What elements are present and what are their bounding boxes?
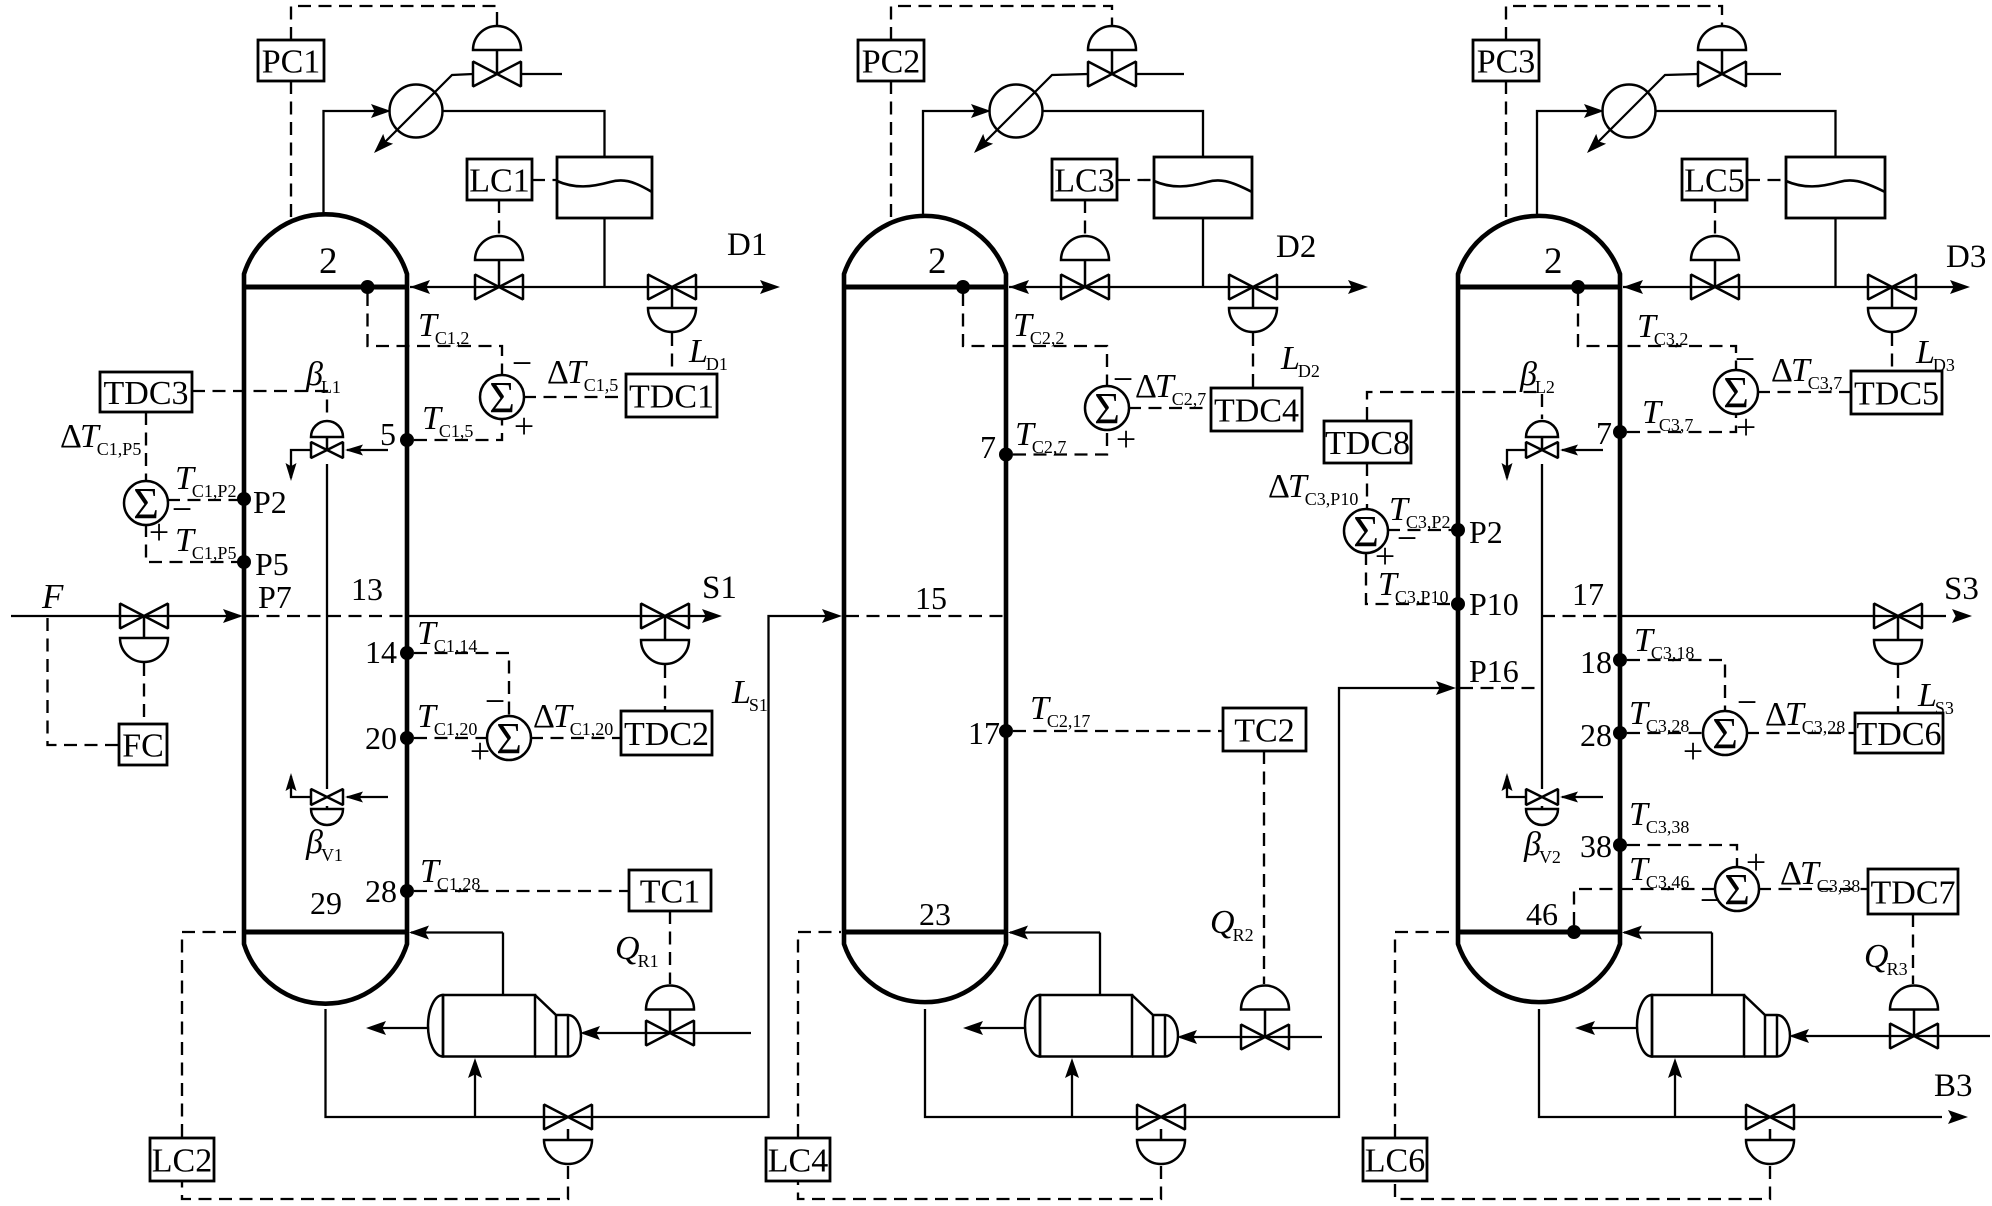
signal TDC8 to summer (dashed) xyxy=(1366,463,1368,510)
controller TDC7 xyxy=(1868,869,1958,914)
label L_D3 xyxy=(1915,334,1955,375)
signal TDC3 to summer (dashed) xyxy=(145,412,147,482)
reflux arrow into column C3 xyxy=(1623,280,1643,294)
svg-text:29: 29 xyxy=(310,885,342,921)
arrow out of beta_V2 (up) xyxy=(1502,773,1513,791)
sensor node tray 38 column C3 xyxy=(1613,838,1627,852)
controller TDC4 xyxy=(1211,388,1302,431)
label B3 xyxy=(1934,1068,1973,1104)
svg-text:B3: B3 xyxy=(1934,1068,1973,1104)
label S1 xyxy=(702,570,737,606)
arrow out of beta_L1 (down) xyxy=(286,463,297,481)
signal TDC3 to internal liquid valve (dashed) xyxy=(192,391,327,418)
label T_C2,17 xyxy=(1030,690,1090,731)
signal T_C1,5 to summer (dashed) xyxy=(414,418,502,440)
vent valve (column C1) xyxy=(473,62,521,87)
summer for TDC6 xyxy=(1703,709,1747,758)
sidestream valve S1 xyxy=(641,604,689,629)
signal PC1 to column top (dashed) xyxy=(290,81,292,223)
signal PC1 to vent valve (dashed) xyxy=(291,6,497,40)
condensate line to reflux drum (column C3) xyxy=(1656,111,1836,157)
label T_C3,2 xyxy=(1637,308,1688,349)
reboiler (column C3) xyxy=(1637,995,1790,1057)
label tray 17 column C3 xyxy=(1572,576,1604,612)
reboiler feed branch (column C2) xyxy=(1071,1062,1073,1117)
sidestream line S3 xyxy=(1620,615,1946,617)
summer plus sign (TDC3) xyxy=(149,512,169,552)
summer for TDC1 (column C1) xyxy=(480,373,524,422)
label tray 46 xyxy=(1526,896,1558,932)
distillate valve D3 xyxy=(1868,275,1916,300)
svg-text:Σ: Σ xyxy=(1712,709,1738,758)
svg-text:+: + xyxy=(1736,407,1756,447)
sensor node P10 column C3 xyxy=(1451,597,1465,611)
svg-text:+: + xyxy=(514,406,534,446)
summer for TDC7 xyxy=(1715,865,1759,914)
arrow into reboiler bottom (column C1) xyxy=(468,1058,482,1078)
controller TC1 xyxy=(629,870,711,911)
label beta_L1 xyxy=(305,356,341,397)
arrow B1 into column C2 xyxy=(822,609,842,623)
label tray 7 column C3 xyxy=(1596,415,1612,451)
svg-text:D1: D1 xyxy=(727,227,767,263)
feed tray 13 dashed line (column C1) xyxy=(246,615,405,617)
arrow B2 into column C3 xyxy=(1436,681,1456,695)
summer plus sign (TDC2) xyxy=(470,731,490,771)
vapor arrow into condenser (column C3) xyxy=(1584,104,1604,118)
label P5 column C1 xyxy=(255,546,289,582)
label T_C3,46 xyxy=(1629,851,1689,892)
internal vapor split valve beta_V2 xyxy=(1526,789,1558,825)
svg-text:P2: P2 xyxy=(1469,514,1503,550)
summer minus sign (TDC6) xyxy=(1737,682,1757,722)
controller FC xyxy=(119,724,167,765)
sensor node tray 17 column C2 xyxy=(999,724,1013,738)
steam valve actuator Q_R3 xyxy=(1890,986,1938,1037)
svg-text:46: 46 xyxy=(1526,896,1558,932)
svg-text:TC2: TC2 xyxy=(1234,712,1294,749)
svg-text:23: 23 xyxy=(919,896,951,932)
svg-text:FC: FC xyxy=(122,727,164,764)
label T_C2,2 xyxy=(1013,307,1064,348)
label beta_V1 xyxy=(305,824,343,865)
reflux arrow into column C2 xyxy=(1009,280,1029,294)
condensate line to reflux drum (column C2) xyxy=(1043,111,1204,157)
svg-text:38: 38 xyxy=(1580,828,1612,864)
steam line Q_R2 xyxy=(1180,1036,1322,1038)
signal T_C2,17 to TC2 (dashed) xyxy=(1013,730,1222,732)
svg-text:7: 7 xyxy=(980,429,996,465)
label tray 20 xyxy=(365,720,397,756)
vent valve actuator (column C3) xyxy=(1698,26,1746,74)
sidestream valve actuator S1 xyxy=(641,616,689,664)
signal L_S1 to TDC2 (dashed) xyxy=(664,665,666,710)
reflux valve (column C1) xyxy=(475,275,523,300)
label P7 xyxy=(258,579,292,615)
label T_C1,2 xyxy=(418,307,469,348)
controller LC5 xyxy=(1682,159,1747,200)
label D1 xyxy=(727,227,767,263)
label tray 7 column C2 xyxy=(980,429,996,465)
steam line Q_R1 xyxy=(583,1032,751,1034)
internal draw line beta_L2 to beta_V2 xyxy=(1541,464,1543,789)
svg-text:P10: P10 xyxy=(1469,586,1519,622)
svg-text:S1: S1 xyxy=(702,570,737,606)
signal LC5 to drum (dashed) xyxy=(1747,179,1786,181)
reboiler liquid outlet arrow (column C3) xyxy=(1575,1021,1595,1035)
controller TDC3 xyxy=(100,372,192,412)
label beta_L2 xyxy=(1519,356,1555,397)
svg-text:5: 5 xyxy=(380,416,396,452)
signal TC2 to reboiler steam valve (dashed) xyxy=(1263,751,1265,984)
feed tray P16 dashed line (column C3) xyxy=(1460,687,1542,689)
svg-text:TDC6: TDC6 xyxy=(1857,716,1942,753)
vapor line column C3 to condenser xyxy=(1537,111,1600,216)
reflux valve (column C2) xyxy=(1061,275,1109,300)
column C3 bottom tray line xyxy=(1458,930,1620,935)
summer minus sign (TDC2) xyxy=(485,681,505,721)
signal LC3 to reflux valve (dashed) xyxy=(1084,200,1086,235)
vent valve (column C3) xyxy=(1698,62,1746,87)
reflux line into column C1 xyxy=(410,286,605,288)
label tray 14 xyxy=(365,634,397,670)
svg-text:−: − xyxy=(512,343,532,383)
distillation column C1 shell xyxy=(244,214,407,1003)
distillation column C3 shell xyxy=(1458,216,1620,1002)
svg-text:LC1: LC1 xyxy=(469,162,529,199)
signal deltaT_C1,20 to TDC2 (dashed) xyxy=(530,737,620,739)
signal deltaT to TDC1 (dashed) xyxy=(523,396,625,398)
summer minus sign (TDC8) xyxy=(1397,518,1417,558)
label deltaT_C3,P10 xyxy=(1268,468,1358,509)
feed valve F xyxy=(120,604,168,629)
label T_C1,P5 xyxy=(175,522,236,563)
signal deltaT to TDC5 (dashed) xyxy=(1757,391,1850,393)
bottoms valve B1 xyxy=(544,1105,592,1130)
arrow out of beta_L2 (down) xyxy=(1502,463,1513,481)
svg-text:D2: D2 xyxy=(1276,229,1316,265)
bottoms valve actuator B3 xyxy=(1746,1129,1794,1164)
summer plus sign (TDC4) xyxy=(1116,419,1136,459)
label T_C3,7 xyxy=(1642,394,1693,435)
column C2 bottom tray line xyxy=(844,930,1006,935)
label deltaT_C3,7 xyxy=(1771,352,1842,393)
reflux line into column C2 xyxy=(1009,286,1203,288)
label tray 28 xyxy=(365,873,397,909)
signal B3 valve to LC6 (dashed) xyxy=(1395,1166,1770,1199)
svg-text:PC1: PC1 xyxy=(262,43,321,80)
distillate valve D1 xyxy=(648,275,696,300)
label tray 23 xyxy=(919,896,951,932)
arrow into reboiler bottom (column C2) xyxy=(1065,1058,1079,1078)
signal L_D2 to TDC (dashed) xyxy=(1252,333,1254,387)
svg-text:TDC2: TDC2 xyxy=(624,716,709,753)
controller TDC1 xyxy=(626,374,717,417)
column C1 bottom tray line xyxy=(244,930,407,935)
label deltaT_C1,P5 xyxy=(60,418,141,459)
distillate valve D2 xyxy=(1229,275,1277,300)
svg-text:−: − xyxy=(1735,339,1755,379)
label tray 15 xyxy=(915,580,947,616)
summer minus sign (TDC5) xyxy=(1735,339,1755,379)
signal B1 valve to LC2 (dashed) xyxy=(182,1166,568,1199)
signal PC3 to column top (dashed) xyxy=(1505,81,1507,223)
feed arrow into column C1 xyxy=(223,609,243,623)
sensor node tray 28 column C1 xyxy=(400,884,414,898)
signal T_C3,18 to summer (dashed) xyxy=(1627,660,1725,712)
svg-text:+: + xyxy=(1116,419,1136,459)
boilup vapor return into column xyxy=(1624,931,1712,933)
svg-text:TDC5: TDC5 xyxy=(1854,375,1939,412)
boilup vapor arrow into column xyxy=(1008,926,1028,940)
sidestream valve actuator S3 xyxy=(1874,616,1922,664)
sensor node tray 7 column C3 xyxy=(1613,425,1627,439)
arrow into beta_L2 xyxy=(1560,445,1578,456)
svg-text:2: 2 xyxy=(928,241,947,282)
svg-text:TDC4: TDC4 xyxy=(1214,392,1299,429)
drum outlet drop (column C2) xyxy=(1202,218,1204,287)
distillate line D2 xyxy=(1203,286,1364,288)
sidestream line S1 xyxy=(407,615,716,617)
signal LC1 to drum (dashed) xyxy=(532,179,557,181)
signal TC1 to reboiler steam valve (dashed) xyxy=(669,911,671,984)
signal T_C2,7 to summer (dashed) xyxy=(1013,429,1107,455)
internal vapor split valve beta_V1 xyxy=(311,789,343,825)
summer plus sign (TDC7) xyxy=(1746,842,1766,882)
sensor node T_C2,2 xyxy=(956,280,970,294)
reflux drum (column C3) xyxy=(1786,157,1885,218)
column C2 stage label 2 xyxy=(928,241,947,282)
column C3 top tray line xyxy=(1458,285,1620,290)
signal T_C1,14 to summer (dashed) xyxy=(414,653,509,717)
vent valve actuator (column C2) xyxy=(1088,26,1136,74)
signal LC4 to column C2 base (dashed) xyxy=(798,932,841,1137)
label T_C3,28 xyxy=(1629,695,1689,736)
label P10 column C3 xyxy=(1469,586,1519,622)
summer plus sign (TDC6) xyxy=(1683,731,1703,771)
vapor outlet of beta_V2 xyxy=(1507,776,1526,797)
signal T_C1,2 to summer (dashed) xyxy=(368,293,503,376)
arrow into reboiler bottom (column C3) xyxy=(1668,1058,1682,1078)
label T_C1,28 xyxy=(420,853,480,894)
reboiler liquid outlet line (column C3) xyxy=(1581,1027,1637,1029)
column C2 top tray line xyxy=(844,285,1006,290)
label T_C3,P2 xyxy=(1389,491,1450,532)
column C3 stage label 2 xyxy=(1544,241,1563,282)
summer minus sign (TDC4) xyxy=(1113,359,1133,399)
sensor node T_C3,2 xyxy=(1571,280,1585,294)
label tray 38 xyxy=(1580,828,1612,864)
steam valve Q_R2 xyxy=(1241,1025,1289,1050)
signal T_C3,7 to summer (dashed) xyxy=(1627,413,1736,432)
steam arrow into reboiler (column C1) xyxy=(580,1026,600,1040)
signal TDC8 to internal liquid valve (dashed) xyxy=(1367,392,1542,420)
controller TDC8 xyxy=(1324,421,1411,463)
distillate valve actuator D3 xyxy=(1868,287,1916,332)
label tray 29 xyxy=(310,885,342,921)
controller LC2 xyxy=(150,1138,214,1181)
label T_C1,5 xyxy=(422,400,473,441)
svg-text:D3: D3 xyxy=(1946,239,1986,275)
controller PC2 xyxy=(858,40,924,81)
signal TDC7 to reboiler steam valve (dashed) xyxy=(1912,914,1914,984)
sensor node P2 column C3 xyxy=(1451,523,1465,537)
svg-text:Σ: Σ xyxy=(496,714,522,763)
svg-text:17: 17 xyxy=(1572,576,1604,612)
label S3 xyxy=(1944,571,1979,607)
signal feed valve to FC (dashed) xyxy=(143,663,145,723)
label deltaT_C2,7 xyxy=(1135,368,1206,409)
reboiler liquid outlet arrow (column C1) xyxy=(366,1021,386,1035)
svg-text:PC3: PC3 xyxy=(1477,43,1536,80)
svg-text:PC2: PC2 xyxy=(862,43,921,80)
svg-text:18: 18 xyxy=(1580,644,1612,680)
signal deltaT to TDC4 (dashed) xyxy=(1128,407,1210,409)
label deltaT_C1,5 xyxy=(547,354,618,395)
label T_C3,18 xyxy=(1634,622,1694,663)
column C1 stage label 2 xyxy=(319,241,338,282)
sensor node tray 28 column C3 xyxy=(1613,726,1627,740)
signal LC5 to reflux valve (dashed) xyxy=(1714,200,1716,235)
label Q_R2 xyxy=(1210,904,1254,945)
controller PC3 xyxy=(1473,40,1539,81)
svg-text:28: 28 xyxy=(365,873,397,909)
summer for TDC2 xyxy=(487,714,531,763)
controller TDC6 xyxy=(1855,713,1943,753)
reboiler feed branch (column C1) xyxy=(474,1062,476,1117)
svg-text:−: − xyxy=(485,681,505,721)
sensor node tray 20 column C1 xyxy=(400,731,414,745)
svg-text:P7: P7 xyxy=(258,579,292,615)
controller PC1 xyxy=(258,40,324,81)
reboiler (column C2) xyxy=(1025,995,1178,1057)
steam arrow into reboiler (column C3) xyxy=(1789,1029,1809,1043)
arrow B3 xyxy=(1948,1110,1968,1124)
sensor node tray 46 column C3 xyxy=(1567,925,1581,939)
boilup vapor line (column C2) xyxy=(1099,933,1101,996)
bottoms line B3 from column C3 xyxy=(1539,1009,1942,1117)
vapor line column C1 to condenser xyxy=(324,111,388,216)
vapor inlet line to beta_V2 xyxy=(1562,796,1603,798)
reboiler feed branch (column C3) xyxy=(1674,1062,1676,1117)
feed valve actuator xyxy=(120,616,168,662)
signal L_S3 to TDC6 (dashed) xyxy=(1897,665,1899,712)
label T_C3,38 xyxy=(1629,796,1689,837)
bottoms line B2 from column C2 xyxy=(925,688,1450,1117)
signal T_C1,P5 to summer (dashed) xyxy=(146,524,240,562)
arrow into beta_V2 xyxy=(1560,792,1578,803)
summer plus sign (TDC5) xyxy=(1736,407,1756,447)
label T_C3,P10 xyxy=(1378,566,1448,607)
svg-text:TC1: TC1 xyxy=(640,873,700,910)
label deltaT_C3,38 xyxy=(1780,855,1860,896)
label Q_R3 xyxy=(1864,938,1908,979)
signal B2 valve to LC4 (dashed) xyxy=(798,1166,1161,1199)
svg-text:7: 7 xyxy=(1596,415,1612,451)
vapor line column C2 to condenser xyxy=(923,111,987,216)
steam arrow into reboiler (column C2) xyxy=(1177,1030,1197,1044)
label P2 column C1 xyxy=(253,484,287,520)
controller TC2 xyxy=(1223,708,1306,751)
distillate valve actuator D1 xyxy=(648,287,696,332)
svg-text:+: + xyxy=(1683,731,1703,771)
signal T_C3,28 to summer (dashed) xyxy=(1627,732,1704,734)
label L_D1 xyxy=(688,333,728,374)
svg-text:13: 13 xyxy=(351,571,383,607)
signal L_D1 to TDC (dashed) xyxy=(671,333,673,373)
signal PC3 to vent valve (dashed) xyxy=(1506,6,1722,40)
sensor node tray 14 column C1 xyxy=(400,646,414,660)
distillate arrow D2 xyxy=(1348,280,1368,294)
signal T_C2,2 to summer (dashed) xyxy=(963,293,1107,387)
signal T_C3,46 to summer (dashed) xyxy=(1574,889,1716,925)
label D2 xyxy=(1276,229,1316,265)
signal PC2 to vent valve (dashed) xyxy=(891,6,1112,40)
boilup vapor arrow into column xyxy=(1622,926,1642,940)
reflux line into column C3 xyxy=(1623,286,1836,288)
bottoms valve actuator B1 xyxy=(544,1129,592,1164)
signal LC2 to column C1 base (dashed) xyxy=(182,932,241,1137)
svg-text:TDC1: TDC1 xyxy=(629,378,714,415)
reflux valve actuator (column C2) xyxy=(1061,236,1109,287)
boilup vapor arrow into column xyxy=(409,926,429,940)
boilup vapor line (column C3) xyxy=(1711,933,1713,996)
signal T_C3,P2 to summer (dashed) xyxy=(1387,529,1454,531)
distillate line D1 xyxy=(605,286,777,288)
signal deltaT_C3,28 to TDC6 (dashed) xyxy=(1746,732,1854,734)
controller LC3 xyxy=(1052,159,1117,200)
internal liquid split valve beta_L2 xyxy=(1526,421,1558,458)
arrow S1 xyxy=(702,609,722,623)
vent valve (column C2) xyxy=(1088,62,1136,87)
label tray 17 column C2 xyxy=(968,715,1000,751)
svg-text:P5: P5 xyxy=(255,546,289,582)
svg-text:28: 28 xyxy=(1580,717,1612,753)
liquid inlet line to beta_L1 xyxy=(347,449,388,451)
summer plus sign (TDC1) xyxy=(514,406,534,446)
signal LC1 to reflux valve (dashed) xyxy=(498,200,500,235)
summer minus sign (TDC1) xyxy=(512,343,532,383)
summer for TDC4 (column C2) xyxy=(1085,384,1129,433)
label T_C1,14 xyxy=(417,615,477,656)
signal F line to FC (dashed) xyxy=(48,618,119,745)
svg-text:F: F xyxy=(41,577,64,616)
svg-text:17: 17 xyxy=(968,715,1000,751)
label T_C2,7 xyxy=(1015,416,1066,457)
boilup vapor return into column xyxy=(411,931,503,933)
controller TDC5 xyxy=(1851,371,1942,414)
label deltaT_C1,20 xyxy=(533,698,613,739)
steam valve Q_R1 xyxy=(646,1021,694,1046)
svg-text:LC2: LC2 xyxy=(152,1142,212,1179)
bottoms line B1 from column C1 xyxy=(326,616,837,1117)
signal LC3 to drum (dashed) xyxy=(1117,179,1154,181)
sensor node P2 column C1 xyxy=(237,492,251,506)
reboiler liquid outlet line (column C1) xyxy=(372,1027,428,1029)
distillate arrow D1 xyxy=(760,280,780,294)
bottoms valve actuator B2 xyxy=(1137,1129,1185,1164)
sensor node tray 7 column C2 xyxy=(999,448,1013,462)
tray 17 dashed line (column C3) xyxy=(1542,615,1618,617)
distillation column C2 shell xyxy=(844,216,1006,1002)
svg-text:+: + xyxy=(1746,842,1766,882)
signal PC2 to column top (dashed) xyxy=(890,81,892,223)
condenser (column C2) xyxy=(974,74,1088,153)
signal T_C3,P10 to summer (dashed) xyxy=(1366,552,1454,604)
distillate line D3 xyxy=(1836,286,1967,288)
summer minus sign (TDC7) xyxy=(1700,880,1720,920)
drum outlet drop (column C1) xyxy=(603,218,605,287)
